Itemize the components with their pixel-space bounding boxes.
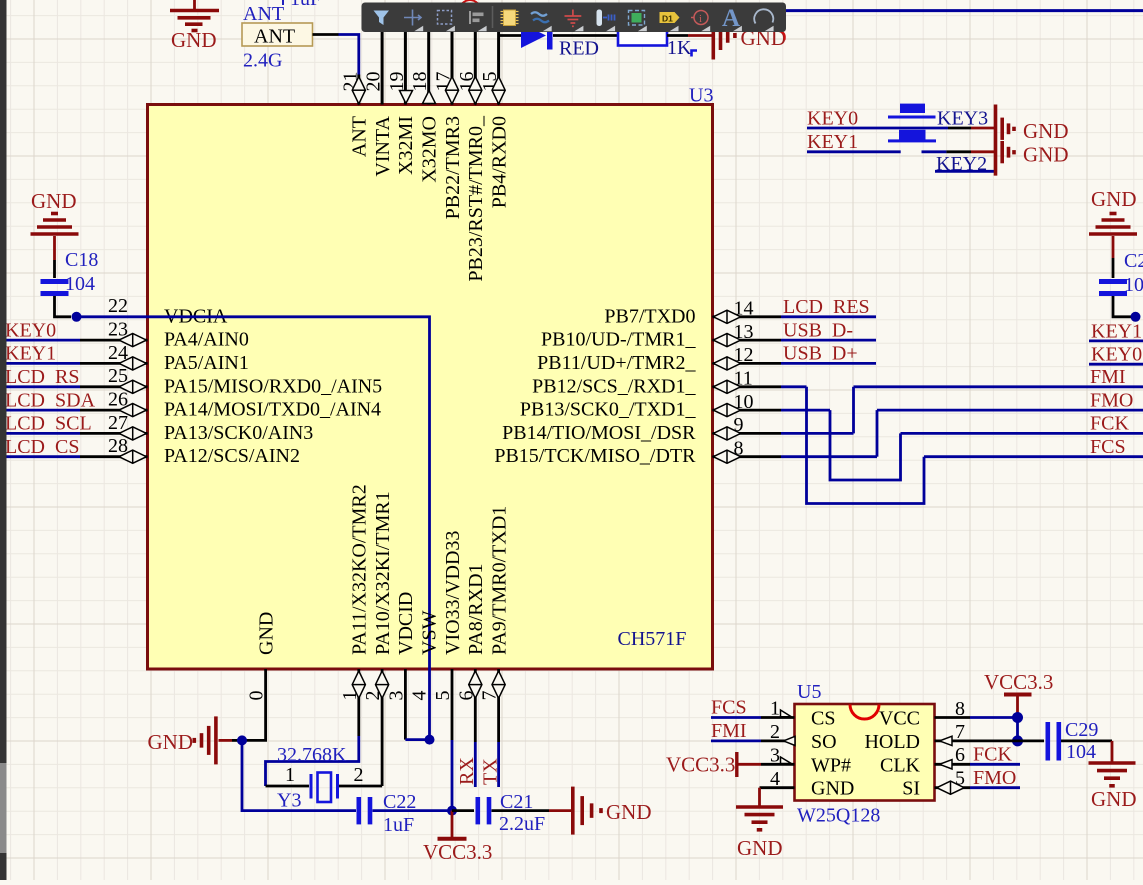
pin 16 top stub [474,31,477,105]
svg-text:PB12/SCS_/RXD1_: PB12/SCS_/RXD1_ [532,375,696,397]
wire KEY0 right [1089,363,1143,366]
svg-text:FMO: FMO [973,767,1016,789]
svg-text:FCK: FCK [1090,413,1129,435]
pin 26 direction diamond [119,404,146,417]
svg-text:TX: TX [480,758,502,785]
svg-text:VINTA: VINTA [372,115,394,176]
svg-text:HOLD: HOLD [864,731,920,753]
pin 27 direction diamond [119,427,146,440]
crystal Y3 [311,773,338,803]
svg-text:KEY0: KEY0 [807,108,858,130]
pin 5 stub [451,669,454,740]
svg-text:PA12/SCS/AIN2: PA12/SCS/AIN2 [164,445,300,467]
ground GND U5 [736,807,783,830]
svg-text:FMO: FMO [1090,389,1133,411]
svg-text:22: 22 [108,295,128,317]
svg-text:i: i [699,13,702,25]
wire U5 pin6 [935,763,1021,766]
svg-text:PB22/TMR3: PB22/TMR3 [442,116,464,219]
svg-text:GND: GND [31,189,77,213]
toolbar icon D1 tag [660,12,680,24]
capacitor C29 [1048,722,1059,761]
wire U5 pin4 to GND [760,788,795,807]
svg-text:PA14/MOSI/TXD0_/AIN4: PA14/MOSI/TXD0_/AIN4 [164,399,381,421]
svg-text:GND: GND [255,612,277,655]
wire C29 to GND [1061,741,1112,763]
wire net LCD_RS [4,385,148,388]
svg-text:VSW: VSW [419,610,441,655]
wire FMO [877,409,1143,412]
svg-text:1uF: 1uF [383,814,414,836]
svg-text:RED: RED [559,38,599,60]
pin 11 stub [713,385,807,388]
svg-text:LCD CS: LCD CS [5,436,79,458]
pin 7 direction diamond [492,671,505,698]
pin 21 direction diamond [352,77,365,104]
pin 0 stub [242,669,266,740]
pin 15 direction diamond [492,77,505,104]
wire C22 to VCC junction [373,809,450,812]
wire crystal right [339,785,382,788]
svg-text:WP#: WP# [811,754,851,776]
toolbar icon probe [691,11,708,26]
svg-text:GND: GND [148,730,194,754]
capacitor C28 [1099,282,1127,294]
svg-text:U3: U3 [689,85,713,107]
capacitor C22 [359,797,370,824]
ground GND C29 [1089,763,1136,786]
svg-text:KEY1: KEY1 [5,343,56,365]
pin 2 stub [381,669,384,786]
wire FCS U5 [711,716,795,719]
wire FCS [924,455,1143,458]
wire pin7 TX [497,742,500,787]
LED D? RED [521,22,553,50]
pin 20 top stub [381,31,384,105]
pin 7 arrow [940,736,953,745]
wire pin15 to LED [499,34,521,37]
ground GND bottom-left rotated [194,716,216,764]
svg-text:GND: GND [1023,142,1069,166]
svg-text:VIO33/VDD33: VIO33/VDD33 [442,531,464,655]
wire pin10 to FCK [830,410,901,480]
power VCC3.3 U5 top [1004,695,1032,718]
wire net LCD_SDA [4,409,148,412]
svg-text:LCD SDA: LCD SDA [5,389,96,411]
svg-text:1K: 1K [667,37,692,59]
svg-text:KEY0: KEY0 [1091,344,1142,366]
pin1 notch arc [850,705,879,720]
svg-text:C29: C29 [1065,719,1098,741]
ground GND key upper [1002,118,1014,140]
pin 12 direction diamond [713,357,740,370]
svg-text:VCC3.3: VCC3.3 [984,670,1053,694]
wire top-right horizontal [786,9,1143,12]
svg-text:104: 104 [1124,274,1143,296]
toolbar icon net class [597,10,615,27]
svg-text:KEY3: KEY3 [937,108,988,130]
ground bar KEY [994,105,998,176]
svg-text:GND: GND [1091,187,1137,211]
pin 8 stub [713,455,878,458]
capacitor C21 [478,797,489,824]
wire dot to dot [1016,718,1019,741]
svg-text:CS: CS [811,708,835,730]
capacitor C18 [41,282,69,294]
wire pin7 to C29 [1018,740,1045,743]
wire net KEY0 [4,339,148,342]
wire FMI [854,385,1143,388]
svg-text:CLK: CLK [880,754,921,776]
window edge strip [0,0,7,880]
svg-text:C18: C18 [65,249,98,271]
pin 6 stub [474,669,477,742]
floating toolbar [362,3,787,33]
svg-text:A: A [722,5,740,32]
junction dot pin22 [72,312,82,322]
wire resistor to GND [667,34,713,37]
svg-text:SO: SO [811,731,837,753]
IC U5 body [795,704,935,801]
pin 9 direction diamond [713,427,740,440]
svg-text:PA11/X32KO/TMR2: PA11/X32KO/TMR2 [349,484,371,655]
pin 18 top stub [427,31,430,105]
wire U5 pin5 [935,786,1021,789]
wire FCK [901,432,1143,435]
toolbar icon arc [754,9,773,23]
wire GND to C28 [1112,258,1115,278]
svg-text:RX: RX [456,757,478,785]
svg-text:PA8/RXD1: PA8/RXD1 [465,563,487,655]
svg-text:32.768K: 32.768K [277,744,347,766]
svg-text:20: 20 [363,72,385,92]
svg-text:KEY1: KEY1 [807,131,858,153]
svg-text:LCD RES: LCD RES [783,296,870,318]
svg-text:GND: GND [1091,787,1137,811]
wire U5 pin8 [935,716,1018,719]
ground GND right C28 [1112,236,1115,258]
svg-text:GND: GND [1023,119,1069,143]
toolbar dropdown arrows [414,26,773,31]
pin 1 arrow [781,710,792,717]
toolbar icon part [501,10,519,26]
svg-text:GND: GND [811,778,854,800]
svg-text:2: 2 [770,721,780,743]
svg-text:3: 3 [770,745,780,767]
pin 19 input triangle [400,91,413,104]
svg-text:1: 1 [770,698,780,720]
ground GND left C18 [53,236,56,260]
pin 14 stub [713,315,877,318]
port ANT [242,23,313,48]
wire crystal left [266,785,310,788]
svg-text:FCS: FCS [711,697,747,719]
pin 15 top stub [497,31,500,105]
pin 8 direction diamond [713,450,740,463]
IC U3 CH571F body [148,105,713,670]
pin 3 stub [404,669,407,740]
pin 12 stub [713,362,877,365]
ground GND top-right rotated [713,12,735,60]
junction dot VSW [425,735,435,745]
svg-text:2.4G: 2.4G [243,50,282,72]
toolbar icon waves [531,12,549,22]
wire U5 pin7 [935,740,1018,743]
wire KEY2 [935,170,994,173]
svg-text:FCS: FCS [1090,436,1126,458]
ground GND bottom-middle rotated [573,787,601,835]
svg-text:VCC: VCC [879,708,920,730]
svg-text:GND: GND [737,836,783,860]
pin 19 top stub [404,31,407,105]
pin 16 direction diamond [469,77,482,104]
wire KEY1 row [807,150,994,153]
svg-text:PA9/TMR0/TXD1: PA9/TMR0/TXD1 [488,506,510,655]
toolbar icon gnd [565,10,582,27]
svg-text:D1: D1 [662,14,673,24]
toolbar separator [492,6,494,28]
red arc sliver toolbar right [780,31,785,40]
pin 14 direction diamond [713,310,740,323]
pin 17 direction diamond [445,77,458,104]
svg-text:PA4/AIN0: PA4/AIN0 [164,329,249,351]
svg-text:LCD SCL: LCD SCL [5,413,92,435]
power VCC3.3 bottom [438,811,467,839]
pin 7 stub [497,669,500,742]
svg-text:PA15/MISO/RXD0_/AIN5: PA15/MISO/RXD0_/AIN5 [164,375,382,397]
pin 6 arrow [940,760,953,769]
wire VCC junction to C21 [452,809,474,812]
pin 2 arrow [784,736,796,745]
svg-text:PA10/X32KI/TMR1: PA10/X32KI/TMR1 [372,491,394,655]
wire C18 to junction [55,296,72,317]
pin 23 direction diamond [119,334,146,347]
pin 13 direction diamond [713,334,740,347]
pin 5 direction diamond [937,781,964,794]
svg-text:Y3: Y3 [277,790,301,812]
pin 2 direction diamond [376,671,389,698]
wire LED to resistor [553,34,618,37]
svg-text:PB10/UD-/TMR1_: PB10/UD-/TMR1_ [541,329,696,351]
wire gnd rail to C22 [242,740,356,810]
wire C28 to junction [1113,296,1136,317]
svg-text:C28: C28 [1124,250,1143,272]
svg-text:PB7/TXD0: PB7/TXD0 [604,305,695,327]
svg-text:104: 104 [1066,741,1096,763]
wire FMI U5 [711,740,795,743]
svg-text:PB14/TIO/MOSI_/DSR: PB14/TIO/MOSI_/DSR [502,422,696,444]
wire pin9 to FMI [852,387,855,434]
wire pin3 to VSW [405,738,427,741]
svg-text:PB13/SCK0_/TXD1_: PB13/SCK0_/TXD1_ [520,399,697,421]
pin 28 direction diamond [119,450,146,463]
pin 18 output triangle [423,91,436,104]
svg-text:VCC3.3: VCC3.3 [666,753,735,777]
wire crystal pin1 [266,736,359,786]
ground GND top-left [170,0,219,31]
svg-text:ANT: ANT [254,26,295,48]
svg-text:X32MI: X32MI [395,116,417,175]
svg-text:1: 1 [285,764,295,786]
svg-text:2: 2 [354,764,364,786]
red arc sliver top [462,0,478,4]
svg-text:104: 104 [65,273,95,295]
svg-text:6: 6 [955,744,965,766]
pin 24 direction diamond [119,357,146,370]
pin 1 direction diamond [352,671,365,698]
svg-text:USB D+: USB D+ [783,343,858,365]
wire ANT to pin21 [313,35,359,75]
junction dot U5 pin8 [1012,712,1023,723]
svg-text:PA5/AIN1: PA5/AIN1 [164,352,249,374]
svg-text:VDCID: VDCID [395,592,417,655]
svg-text:4: 4 [409,691,431,701]
pin 10 stub [713,409,831,412]
ground GND key lower [1002,141,1014,163]
svg-text:1uF: 1uF [290,0,321,10]
svg-text:CH571F: CH571F [618,628,687,650]
wire KEY1 right [1089,339,1143,342]
wire pin11 to FCS [807,387,925,504]
toolbar icon component green [629,11,645,26]
svg-text:SI: SI [902,778,920,800]
svg-text:PA13/SCK0/AIN3: PA13/SCK0/AIN3 [164,422,313,444]
toolbar icon move [404,10,421,26]
svg-text:VCC3.3: VCC3.3 [423,840,492,864]
svg-text:18: 18 [409,72,431,92]
pin 11 direction diamond [713,380,740,393]
svg-text:GND: GND [606,800,652,824]
svg-text:KEY0: KEY0 [5,319,56,341]
power VCC3.3 U5 left [737,752,795,777]
svg-text:4: 4 [770,768,780,790]
wire C21 to GND [492,809,573,812]
wire pin5 down [451,740,454,811]
svg-text:PB11/UD+/TMR2_: PB11/UD+/TMR2_ [537,352,696,374]
junction dot bottom-left [237,735,247,745]
svg-text:19: 19 [386,72,408,92]
svg-text:GND: GND [171,28,217,52]
pin 17 top stub [451,31,454,105]
junction dot U5 pin7 [1012,735,1023,746]
wire pin8 to FMO [876,410,879,457]
svg-text:2.2uF: 2.2uF [499,813,545,835]
svg-text:ANT: ANT [243,3,284,25]
resistor R? 1K body [618,25,667,46]
svg-text:LCD RS: LCD RS [5,366,79,388]
pin 9 stub [713,432,854,435]
svg-text:U5: U5 [797,681,821,703]
svg-text:FMI: FMI [711,720,747,742]
wire VDCIA-VSW net [77,317,430,740]
svg-text:W25Q128: W25Q128 [797,805,880,827]
svg-text:USB D-: USB D- [783,319,853,341]
svg-text:PB4/RXD0: PB4/RXD0 [488,116,510,208]
pin 1 stub [357,669,360,736]
wire net KEY1 [4,362,148,365]
pushbutton S? KEY [888,104,936,143]
stray blue corner [692,51,698,57]
svg-text:FCK: FCK [973,744,1012,766]
pin 21 top stub [357,75,360,105]
svg-text:ANT: ANT [349,116,371,157]
svg-text:PB23/RST#/TMR0_: PB23/RST#/TMR0_ [465,115,487,282]
pin 10 direction diamond [713,404,740,417]
wire KEY0 row [807,127,994,130]
junction dot right edge [1131,312,1141,322]
wire gnd to junction [219,739,243,742]
junction dot VCC33 [447,806,457,816]
wire net LCD_CS [4,455,148,458]
pin 6 direction diamond [469,671,482,698]
svg-text:FMI: FMI [1090,366,1126,388]
toolbar icon align [469,11,484,24]
svg-text:X32MO: X32MO [419,116,441,183]
pin 13 stub [713,339,877,342]
svg-text:KEY1: KEY1 [1091,320,1142,342]
toolbar icon filter [374,11,390,26]
pin 25 direction diamond [119,380,146,393]
wire GND to C18 [53,260,56,278]
toolbar icon select [438,11,452,25]
pin 3 arrow [781,757,792,764]
svg-text:PB15/TCK/MISO_/DTR: PB15/TCK/MISO_/DTR [494,445,696,467]
wire pin6 RX [474,742,477,787]
wire net LCD_SCL [4,432,148,435]
